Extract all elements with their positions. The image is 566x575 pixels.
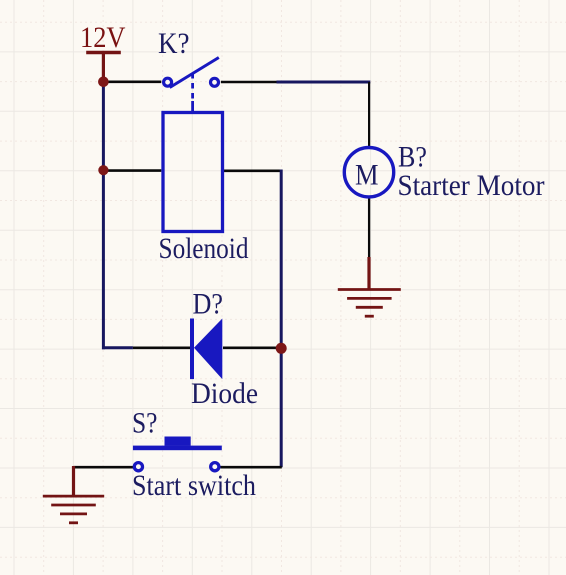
svg-text:Solenoid: Solenoid <box>159 233 249 265</box>
svg-text:12V: 12V <box>80 22 126 54</box>
svg-text:Starter Motor: Starter Motor <box>398 170 545 202</box>
svg-text:S?: S? <box>132 407 158 439</box>
svg-text:M: M <box>355 159 379 191</box>
svg-text:D?: D? <box>193 289 224 321</box>
svg-text:K?: K? <box>158 28 190 60</box>
svg-text:Diode: Diode <box>191 378 258 410</box>
svg-text:Start switch: Start switch <box>132 470 256 502</box>
svg-text:B?: B? <box>398 142 427 174</box>
